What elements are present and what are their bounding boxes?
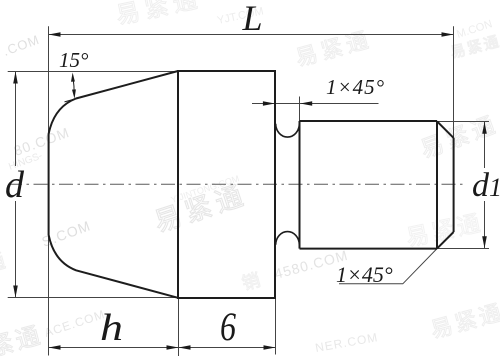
dimension d line: [15, 72, 17, 298]
groove upper arc: [276, 124, 300, 137]
dimension 6 arrow left: [179, 345, 191, 350]
dimension d arrow down: [13, 286, 18, 298]
svg-text:d1: d1: [472, 167, 500, 204]
svg-text:易紧通: 易紧通: [404, 209, 486, 251]
svg-text:销: 销: [240, 270, 263, 294]
svg-text:d: d: [5, 164, 25, 206]
dimension 6 line: [179, 347, 276, 349]
svg-text:通: 通: [0, 249, 8, 276]
extension line left (for L and h): [48, 26, 50, 355]
groove lower arc: [276, 232, 300, 245]
dimension d arrow up: [13, 72, 18, 84]
dimension L arrow left: [49, 32, 61, 37]
dimension h line: [49, 347, 179, 349]
svg-text:h: h: [100, 307, 123, 349]
dimension h arrow right: [167, 345, 179, 350]
svg-text:.COM: .COM: [1, 32, 42, 59]
chamfer top diagonal: [437, 121, 454, 138]
dimension L arrow right: [442, 32, 454, 37]
dimension 1x45 top line: [252, 103, 379, 105]
svg-text:易紧通: 易紧通: [293, 26, 375, 70]
chamfer edge line: [436, 121, 438, 249]
d1 extension line bottom: [437, 248, 489, 250]
dimension 6 arrow right: [264, 345, 276, 350]
6 extension line at flange right: [275, 297, 277, 354]
part outline: head: [49, 71, 178, 298]
svg-text:1×45°: 1×45°: [326, 75, 385, 99]
svg-text:6: 6: [220, 304, 236, 349]
svg-text:易紧通: 易紧通: [449, 33, 500, 62]
dimension d1 arrow down: [482, 236, 487, 248]
leader for bottom 1x45: [339, 249, 437, 284]
centerline (axis): [8, 183, 467, 185]
svg-text:15°: 15°: [59, 48, 89, 72]
d extension line top: [8, 71, 179, 73]
1x45 top arrow right-pointing: [263, 101, 275, 106]
shank top edge: [300, 120, 438, 122]
dimension d1 arrow up: [482, 122, 487, 134]
chamfer bottom diagonal: [437, 232, 454, 249]
svg-text:易紧通: 易紧通: [114, 0, 205, 30]
dimension L line: [49, 34, 454, 36]
d extension line bottom: [8, 297, 179, 299]
svg-text:1×45°: 1×45°: [336, 262, 393, 287]
svg-text:80.COM: 80.COM: [12, 124, 72, 159]
1x45 top arrow left-pointing: [300, 101, 312, 106]
dimension h arrow left: [49, 345, 61, 350]
svg-text:易紧通: 易紧通: [428, 299, 500, 343]
h extension line at flange left: [178, 297, 180, 356]
angle 15 double arrow: [73, 77, 74, 96]
1x45 extension tick at shank left: [299, 97, 301, 122]
dimension d1 line: [484, 122, 486, 248]
svg-text:易紧通: 易紧通: [417, 111, 500, 163]
shank left face: [299, 121, 301, 249]
svg-text:ACE.COM: ACE.COM: [43, 307, 107, 340]
shank bottom edge: [300, 248, 438, 250]
shank right edge: [453, 138, 455, 232]
svg-text:S.COM: S.COM: [40, 217, 93, 249]
svg-text:NER.COM: NER.COM: [314, 330, 379, 355]
d1 extension line top: [437, 121, 489, 123]
svg-text:紧通: 紧通: [0, 322, 46, 357]
extension line right (for L): [453, 26, 455, 138]
part outline: flange rectangle: [178, 71, 275, 298]
svg-text:L: L: [242, 0, 263, 38]
15 deg tick on slope: [65, 98, 79, 102]
